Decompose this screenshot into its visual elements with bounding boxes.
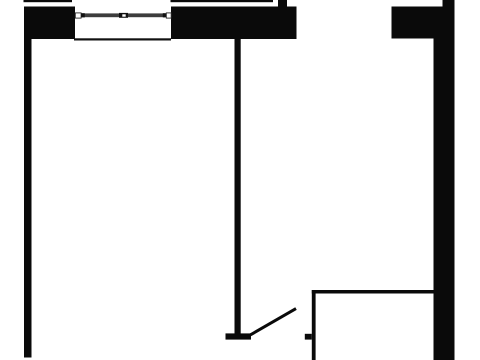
wall right exterior: [434, 38, 455, 360]
window glazing line: [82, 13, 166, 17]
window center mullion block: [119, 13, 128, 18]
closet left wall thin: [312, 290, 316, 360]
window glazing dark end right: [163, 13, 167, 17]
wall top-left block: [24, 7, 75, 40]
wall interior partition vertical: [235, 38, 241, 335]
window glazing dark end left: [81, 13, 85, 17]
door jamb stub on closet wall: [305, 334, 312, 340]
window right sash box: [166, 13, 171, 18]
closet top wall thin: [312, 290, 434, 294]
door jamb cap at partition foot: [226, 333, 252, 339]
balcony edge line right segment: [171, 0, 274, 2]
window left sash box: [75, 13, 81, 18]
wall top-middle block: [171, 7, 297, 40]
door leaf swing: [251, 309, 297, 335]
wall left exterior: [24, 7, 32, 358]
window sill line: [74, 38, 171, 40]
wall stub above top-middle block: [278, 0, 287, 8]
wall stub above top-right block: [443, 0, 455, 8]
balcony edge line left segment: [24, 0, 73, 2]
wall top-right block: [392, 7, 455, 39]
window center mullion white core: [122, 14, 125, 16]
